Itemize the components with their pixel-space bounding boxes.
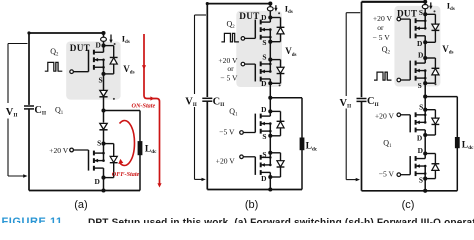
svg-text:D: D — [417, 134, 422, 143]
svg-text:(b): (b) — [245, 199, 258, 211]
svg-text:S: S — [262, 53, 266, 62]
svg-text:S: S — [419, 8, 423, 17]
svg-text:(c): (c) — [402, 199, 415, 211]
svg-text:FIGURE 11.: FIGURE 11. — [2, 216, 67, 223]
svg-text:S: S — [98, 75, 102, 84]
svg-text:DPT Setup used in this work. (: DPT Setup used in this work. (a) Forward… — [88, 217, 474, 223]
svg-text:− 5 V: − 5 V — [372, 33, 390, 42]
svg-text:D: D — [261, 79, 266, 88]
svg-text:or: or — [377, 23, 384, 32]
svg-text:D: D — [261, 174, 266, 183]
svg-text:+20 V: +20 V — [49, 146, 69, 155]
svg-text:D: D — [94, 177, 99, 186]
svg-text:S: S — [262, 150, 266, 159]
svg-text:D: D — [417, 39, 422, 48]
svg-text:+20 V: +20 V — [375, 111, 395, 120]
svg-text:D: D — [261, 13, 266, 22]
svg-text:− 5 V: − 5 V — [220, 73, 238, 82]
svg-text:DUT: DUT — [397, 9, 417, 19]
svg-text:S: S — [419, 176, 423, 185]
svg-text:DUT: DUT — [239, 11, 259, 21]
svg-text:DUT: DUT — [70, 43, 90, 53]
svg-text:+20 V: +20 V — [216, 157, 236, 166]
svg-text:S: S — [97, 138, 101, 147]
svg-text:ON-State: ON-State — [132, 103, 156, 110]
svg-text:S: S — [419, 103, 423, 112]
svg-text:or: or — [227, 64, 234, 73]
svg-text:S: S — [262, 132, 266, 141]
svg-text:D: D — [261, 105, 266, 114]
svg-text:D: D — [418, 51, 423, 60]
svg-text:+20 V: +20 V — [373, 14, 393, 23]
svg-text:S: S — [418, 81, 422, 90]
svg-text:D: D — [95, 41, 100, 50]
svg-text:−5 V: −5 V — [219, 127, 235, 136]
svg-text:(a): (a) — [74, 199, 87, 211]
svg-text:−5 V: −5 V — [379, 169, 395, 178]
svg-text:S: S — [262, 38, 266, 47]
svg-text:D: D — [418, 146, 423, 155]
svg-text:OFF-State: OFF-State — [112, 171, 140, 178]
